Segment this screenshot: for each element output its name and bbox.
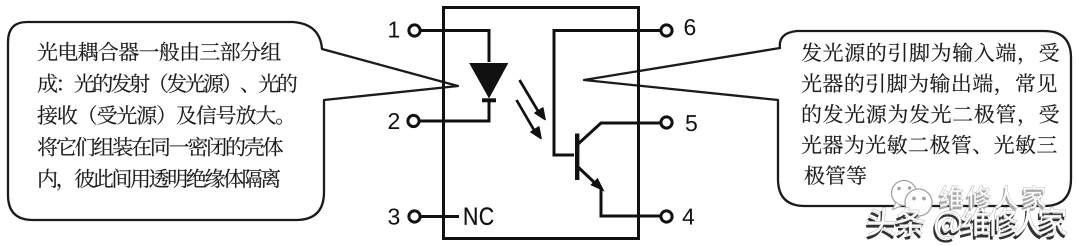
pin 4 terminal circle [661,211,672,222]
left callout text line 5 [39,169,280,191]
phototransistor emitter with arrow [577,166,604,191]
LED D1 (emitter diode) [470,64,508,101]
wire pin1 to LED anode [420,31,489,63]
right callout text line 2 [802,73,1057,95]
NC label [465,207,494,225]
light arrow 2 [517,100,542,139]
pin 6 terminal circle [661,25,672,36]
watermark text small 维修人家 [938,185,1046,211]
wire LED cathode to pin2 [419,101,489,121]
pin 1 label [389,22,399,38]
light arrow 1 [520,80,546,120]
left callout text line 4 [38,137,283,157]
pin 1 terminal circle [409,25,420,36]
pin 2 label [389,113,399,129]
right callout text line 1 [802,42,1059,64]
pin 6 label [685,19,696,35]
pin 4 label [683,209,695,225]
wire emitter to pin4 [601,188,661,216]
phototransistor Q1 base bar [575,134,579,181]
left callout text line 3 [38,105,282,125]
watermark wechat icon [892,181,933,223]
pin 5 label [686,115,697,131]
watermark text large 头条@维修人家 [866,207,1067,243]
optocoupler package outline U1 [444,8,639,239]
pin 5 terminal circle [661,117,672,128]
left callout text line 2 [38,73,297,93]
wire pin3 NC stub [420,215,459,218]
wire pin6 to phototransistor base [554,31,661,156]
pin 2 terminal circle [408,115,419,126]
right callout text line 4 [802,135,1057,154]
right callout bubble outline [584,31,1071,206]
right callout text line 3 [803,104,1059,126]
left callout bubble outline [8,22,458,220]
pin 3 label [388,208,399,224]
right callout text line 5 [805,165,867,184]
pin 3 terminal circle [409,211,420,222]
phototransistor collector wire to pin5 [577,123,661,145]
left callout text line 1 [38,42,281,61]
